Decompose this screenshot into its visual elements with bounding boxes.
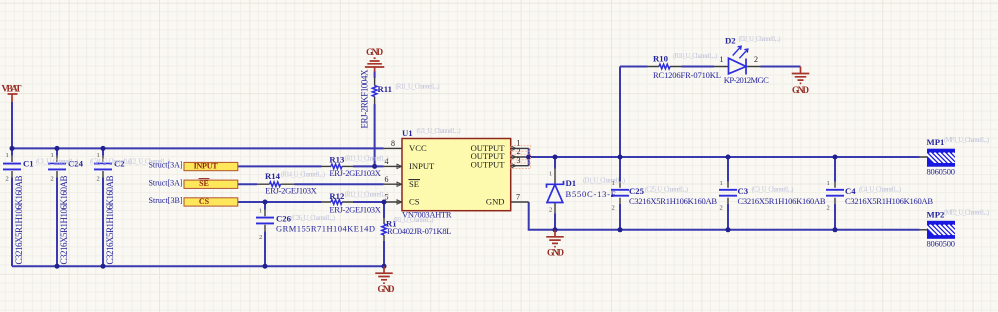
svg-text:8: 8	[391, 139, 395, 148]
svg-text:CS: CS	[199, 197, 210, 206]
svg-text:R13: R13	[329, 155, 345, 165]
svg-text:R11: R11	[378, 84, 392, 94]
svg-text:8060500: 8060500	[927, 239, 956, 249]
svg-text:8060500: 8060500	[927, 167, 956, 177]
svg-text:(C1_U_Channel1, ..): (C1_U_Channel1, ..)	[36, 159, 78, 166]
svg-text:C4: C4	[845, 186, 856, 196]
svg-text:(C26_U_Channel1, ..): (C26_U_Channel1, ..)	[291, 215, 335, 222]
svg-text:2: 2	[97, 176, 100, 183]
svg-text:ERJ-2GEJ103X: ERJ-2GEJ103X	[329, 205, 381, 215]
svg-text:D2: D2	[725, 36, 736, 46]
svg-text:7: 7	[516, 193, 520, 202]
svg-text:(C4_U_Channel1, ..): (C4_U_Channel1, ..)	[859, 186, 901, 193]
svg-text:C25: C25	[629, 186, 645, 196]
svg-text:ERJ-2GEJ103X: ERJ-2GEJ103X	[265, 186, 317, 196]
svg-text:1: 1	[549, 171, 552, 178]
svg-text:GND: GND	[366, 47, 384, 57]
svg-text:GND: GND	[486, 197, 505, 207]
svg-text:D1: D1	[566, 178, 577, 188]
svg-text:INPUT: INPUT	[194, 161, 219, 170]
svg-text:RC1206FR-0710KL: RC1206FR-0710KL	[653, 70, 721, 80]
svg-text:INPUT: INPUT	[409, 161, 435, 171]
svg-text:1: 1	[6, 152, 9, 159]
svg-text:6: 6	[385, 175, 389, 184]
svg-text:C3216X5R1H106K160AB: C3216X5R1H106K160AB	[59, 176, 69, 265]
svg-text:VCC: VCC	[409, 143, 427, 153]
svg-text:2: 2	[259, 234, 262, 241]
svg-text:ERJ-2GEJ103X: ERJ-2GEJ103X	[329, 168, 381, 178]
svg-text:SE: SE	[199, 179, 209, 188]
svg-text:2: 2	[6, 176, 9, 183]
svg-text:(C3_U_Channel1, ..): (C3_U_Channel1, ..)	[752, 186, 794, 193]
svg-text:(MP2_U_Channel1, ..): (MP2_U_Channel1, ..)	[944, 210, 989, 217]
svg-text:(R10_U_Channel1, ..): (R10_U_Channel1, ..)	[673, 53, 717, 60]
svg-text:U1: U1	[402, 128, 413, 138]
svg-text:(C24_U_Channel1, ..): (C24_U_Channel1, ..)	[90, 159, 132, 166]
svg-text:1: 1	[720, 180, 723, 187]
svg-text:3: 3	[517, 156, 521, 165]
svg-text:2: 2	[549, 207, 552, 214]
svg-text:2: 2	[827, 205, 830, 212]
svg-text:2: 2	[720, 205, 723, 212]
svg-text:C1: C1	[23, 158, 34, 168]
svg-text:1: 1	[97, 152, 100, 159]
svg-text:MP2: MP2	[927, 209, 945, 219]
svg-text:C3216X5R1H106K160AB: C3216X5R1H106K160AB	[105, 176, 115, 265]
svg-text:2: 2	[517, 147, 521, 156]
svg-text:C3216X5R1H106K160AB: C3216X5R1H106K160AB	[845, 196, 933, 206]
svg-text:(D2_U_Channel1, ..): (D2_U_Channel1, ..)	[739, 36, 781, 43]
svg-text:(R1_U_Channel1, ..): (R1_U_Channel1, ..)	[394, 217, 434, 224]
svg-text:2: 2	[51, 176, 54, 183]
svg-text:R14: R14	[265, 171, 281, 181]
svg-text:(D1_U_Channel1, ..): (D1_U_Channel1, ..)	[583, 178, 625, 185]
svg-text:(C25_U_Channel1, ..): (C25_U_Channel1, ..)	[645, 186, 688, 193]
svg-text:1: 1	[51, 152, 54, 159]
svg-text:(R14_U_Channel1, ..): (R14_U_Channel1, ..)	[281, 172, 325, 179]
svg-text:1: 1	[720, 55, 724, 64]
svg-text:KP-2012MGC: KP-2012MGC	[724, 75, 769, 85]
svg-text:Struct[3B]: Struct[3B]	[149, 196, 183, 205]
svg-text:R10: R10	[653, 53, 669, 63]
svg-text:(U1_U_Channel1, ..): (U1_U_Channel1, ..)	[417, 128, 461, 135]
svg-text:Struct[3A]: Struct[3A]	[149, 178, 183, 187]
svg-text:2: 2	[754, 55, 758, 64]
svg-text:RC0402JR-071K8L: RC0402JR-071K8L	[387, 226, 452, 236]
svg-text:SE: SE	[409, 179, 419, 189]
svg-text:ERJ-2RKF1004X: ERJ-2RKF1004X	[359, 69, 369, 129]
svg-text:1: 1	[612, 180, 615, 187]
svg-text:C26: C26	[276, 214, 292, 224]
svg-text:(C2_U_Channel1, ..): (C2_U_Channel1, ..)	[128, 159, 170, 166]
svg-text:R12: R12	[329, 191, 344, 201]
svg-text:GND: GND	[792, 85, 810, 95]
svg-text:(R13_U_Channel1, ..): (R13_U_Channel1, ..)	[345, 156, 389, 163]
svg-text:OUTPUT: OUTPUT	[471, 159, 506, 169]
svg-text:2: 2	[612, 205, 615, 212]
svg-text:MP1: MP1	[927, 137, 945, 147]
svg-text:(R11_U_Channel1, ..): (R11_U_Channel1, ..)	[396, 83, 440, 90]
svg-text:C3: C3	[738, 186, 749, 196]
svg-text:GRM155R71H104KE14D: GRM155R71H104KE14D	[276, 224, 375, 234]
svg-text:GND: GND	[547, 248, 565, 258]
svg-text:VBAT: VBAT	[2, 85, 23, 95]
svg-text:(R12_U_Channel1, ..): (R12_U_Channel1, ..)	[345, 192, 389, 199]
svg-text:C3216X5R1H106K160AB: C3216X5R1H106K160AB	[14, 176, 24, 265]
svg-text:C3216X5R1H106K160AB: C3216X5R1H106K160AB	[629, 196, 717, 206]
svg-text:C3216X5R1H106K160AB: C3216X5R1H106K160AB	[738, 196, 826, 206]
svg-text:(MP1_U_Channel1, ..): (MP1_U_Channel1, ..)	[944, 137, 989, 144]
svg-text:B550C-13-F: B550C-13-F	[566, 189, 616, 199]
svg-text:GND: GND	[378, 284, 396, 294]
svg-text:1: 1	[827, 180, 830, 187]
svg-text:CS: CS	[409, 197, 420, 207]
svg-text:1: 1	[259, 207, 262, 214]
